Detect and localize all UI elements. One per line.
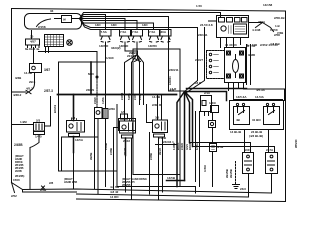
svg-text:1/45/4: 1/45/4	[204, 164, 207, 172]
svg-text:7.5A: 7.5A	[101, 30, 108, 34]
svg-text:14/5A: 14/5A	[75, 138, 84, 142]
svg-text:24.50 3.8: 24.50 3.8	[200, 23, 213, 27]
svg-text:24D/7: 24D/7	[195, 58, 203, 62]
svg-text:24/31: 24/31	[133, 93, 137, 100]
svg-text:4/5.3: 4/5.3	[26, 87, 33, 91]
svg-text:B4D/3: B4D/3	[176, 142, 180, 150]
svg-text:7.5A: 7.5A	[149, 30, 156, 34]
svg-text:24/3.5: 24/3.5	[120, 92, 124, 100]
svg-text:4.1/38: 4.1/38	[252, 28, 261, 32]
svg-text:4/38.2: 4/38.2	[13, 93, 22, 97]
svg-text:51/5A: 51/5A	[127, 93, 131, 100]
svg-text:14 R: 14 R	[168, 88, 175, 92]
svg-text:24/5B: 24/5B	[149, 153, 153, 160]
svg-text:3/3B: 3/3B	[15, 76, 22, 80]
svg-text:1.50: 1.50	[196, 4, 202, 8]
svg-text:14/5B: 14/5B	[104, 143, 108, 150]
svg-text:33: 33	[50, 9, 54, 13]
svg-text:3/5: 3/5	[155, 116, 160, 120]
svg-text:H015: H015	[244, 148, 252, 152]
svg-text:24/5B: 24/5B	[109, 148, 113, 155]
svg-text:2/8: 2/8	[49, 181, 54, 185]
svg-text:1/4/5: 1/4/5	[35, 135, 42, 139]
svg-text:14D: 14D	[142, 23, 148, 27]
svg-text:28/3B: 28/3B	[15, 170, 22, 173]
svg-text:3/67: 3/67	[44, 68, 50, 72]
svg-text:14/5/1: 14/5/1	[172, 142, 176, 150]
svg-text:3/7B: 3/7B	[217, 145, 224, 149]
svg-text:4.8 42: 4.8 42	[110, 190, 119, 194]
svg-text:14D5D: 14D5D	[99, 44, 109, 48]
svg-text:4.8 SB: 4.8 SB	[110, 185, 120, 189]
svg-text:HAND 2/5B: HAND 2/5B	[64, 181, 77, 184]
svg-text:1/4/9: 1/4/9	[209, 101, 216, 105]
svg-text:44 F30: 44 F30	[246, 44, 256, 48]
svg-text:2B4/5B: 2B4/5B	[122, 184, 131, 187]
svg-text:14 RD: 14 RD	[110, 195, 119, 199]
svg-text:2/58.1B: 2/58.1B	[274, 16, 285, 20]
svg-text:14D: 14D	[111, 23, 117, 27]
svg-text:2/45B: 2/45B	[14, 143, 23, 147]
svg-text:2B.5: 2B.5	[29, 80, 36, 84]
svg-text:B4D/8: B4D/8	[188, 142, 192, 150]
svg-text:4.8 R: 4.8 R	[194, 81, 202, 85]
svg-text:388D: 388D	[248, 53, 256, 57]
svg-text:2B4/5B: 2B4/5B	[229, 169, 233, 178]
svg-text:14/5B: 14/5B	[167, 176, 176, 180]
svg-text:M30: M30	[88, 72, 94, 76]
svg-text:1500: 1500	[13, 178, 20, 182]
svg-text:2B5/4D: 2B5/4D	[295, 139, 298, 148]
svg-text:1/45A: 1/45A	[195, 143, 199, 150]
svg-text:7/3B: 7/3B	[277, 31, 284, 35]
svg-text:2B/5B: 2B/5B	[89, 153, 93, 160]
svg-text:2B4/2: 2B4/2	[129, 51, 137, 55]
svg-text:247A: 247A	[266, 148, 274, 152]
svg-text:30A: 30A	[161, 30, 167, 34]
svg-text:(4/3 BL/B): (4/3 BL/B)	[249, 134, 263, 138]
svg-text:24D/9: 24D/9	[86, 88, 94, 92]
svg-text:24/15: 24/15	[138, 93, 142, 100]
svg-text:7.5A: 7.5A	[120, 30, 127, 34]
svg-text:2B4/3: 2B4/3	[158, 148, 162, 155]
svg-text:1.B: 1.B	[275, 24, 281, 28]
svg-text:34/9(2): 34/9(2)	[111, 46, 121, 50]
svg-text:2/3: 2/3	[36, 119, 41, 123]
svg-text:2/5B: 2/5B	[40, 188, 47, 192]
svg-text:2/57.3: 2/57.3	[44, 89, 53, 93]
svg-text:2B4/3: 2B4/3	[123, 148, 127, 155]
svg-text:1/9: 1/9	[121, 110, 126, 114]
svg-text:2B4/3B): 2B4/3B)	[15, 175, 24, 178]
svg-text:31 BN: 31 BN	[252, 118, 261, 122]
svg-text:24D/2: 24D/2	[180, 143, 184, 150]
svg-text:14D: 14D	[95, 23, 101, 27]
svg-text:1.9M: 1.9M	[20, 120, 27, 124]
svg-text:24X2: 24X2	[123, 139, 130, 143]
svg-text:24D/9: 24D/9	[94, 97, 97, 104]
svg-text:14D5D: 14D5D	[119, 44, 129, 48]
svg-text:1/8: 1/8	[71, 116, 76, 120]
svg-text:14/5.3A: 14/5.3A	[236, 95, 247, 99]
svg-text:14/158: 14/158	[263, 3, 273, 7]
svg-text:14.5/A: 14.5/A	[255, 95, 265, 99]
svg-text:2/69: 2/69	[109, 107, 115, 111]
svg-text:4B: 4B	[236, 118, 241, 122]
svg-text:14 BL/B: 14 BL/B	[230, 130, 242, 134]
svg-text:14.1B: 14.1B	[152, 95, 161, 99]
svg-text:30: 30	[30, 35, 34, 39]
svg-text:2AD/11: 2AD/11	[168, 76, 172, 85]
svg-text:4/57: 4/57	[30, 40, 36, 44]
svg-text:24/3: 24/3	[240, 187, 246, 191]
svg-text:1/190: 1/190	[106, 56, 114, 60]
svg-text:365A: 365A	[258, 20, 266, 24]
svg-text:2/52: 2/52	[11, 194, 17, 198]
svg-text:B/C/19: B/C/19	[53, 104, 57, 113]
svg-text:2/158: 2/158	[38, 25, 46, 29]
svg-text:14D50: 14D50	[148, 44, 157, 48]
svg-text:7.5A: 7.5A	[132, 30, 139, 34]
svg-text:4/5.3A: 4/5.3A	[256, 88, 266, 92]
svg-text:8a 8b 4 4a: 8a 8b 4 4a	[25, 47, 40, 51]
svg-text:31 30 50: 31 30 50	[225, 43, 237, 47]
svg-text:2/3B R: 2/3B R	[152, 103, 162, 107]
svg-text:2B4/5B: 2B4/5B	[225, 169, 229, 178]
svg-text:4.8 P.B: 4.8 P.B	[270, 42, 280, 46]
svg-text:2/19: 2/19	[204, 91, 210, 95]
svg-text:9f: 9f	[63, 18, 66, 22]
svg-text:24D.11: 24D.11	[198, 33, 208, 37]
svg-text:24D/11: 24D/11	[169, 68, 179, 72]
svg-text:14/5A: 14/5A	[102, 97, 105, 104]
svg-text:14.3B: 14.3B	[24, 71, 33, 75]
